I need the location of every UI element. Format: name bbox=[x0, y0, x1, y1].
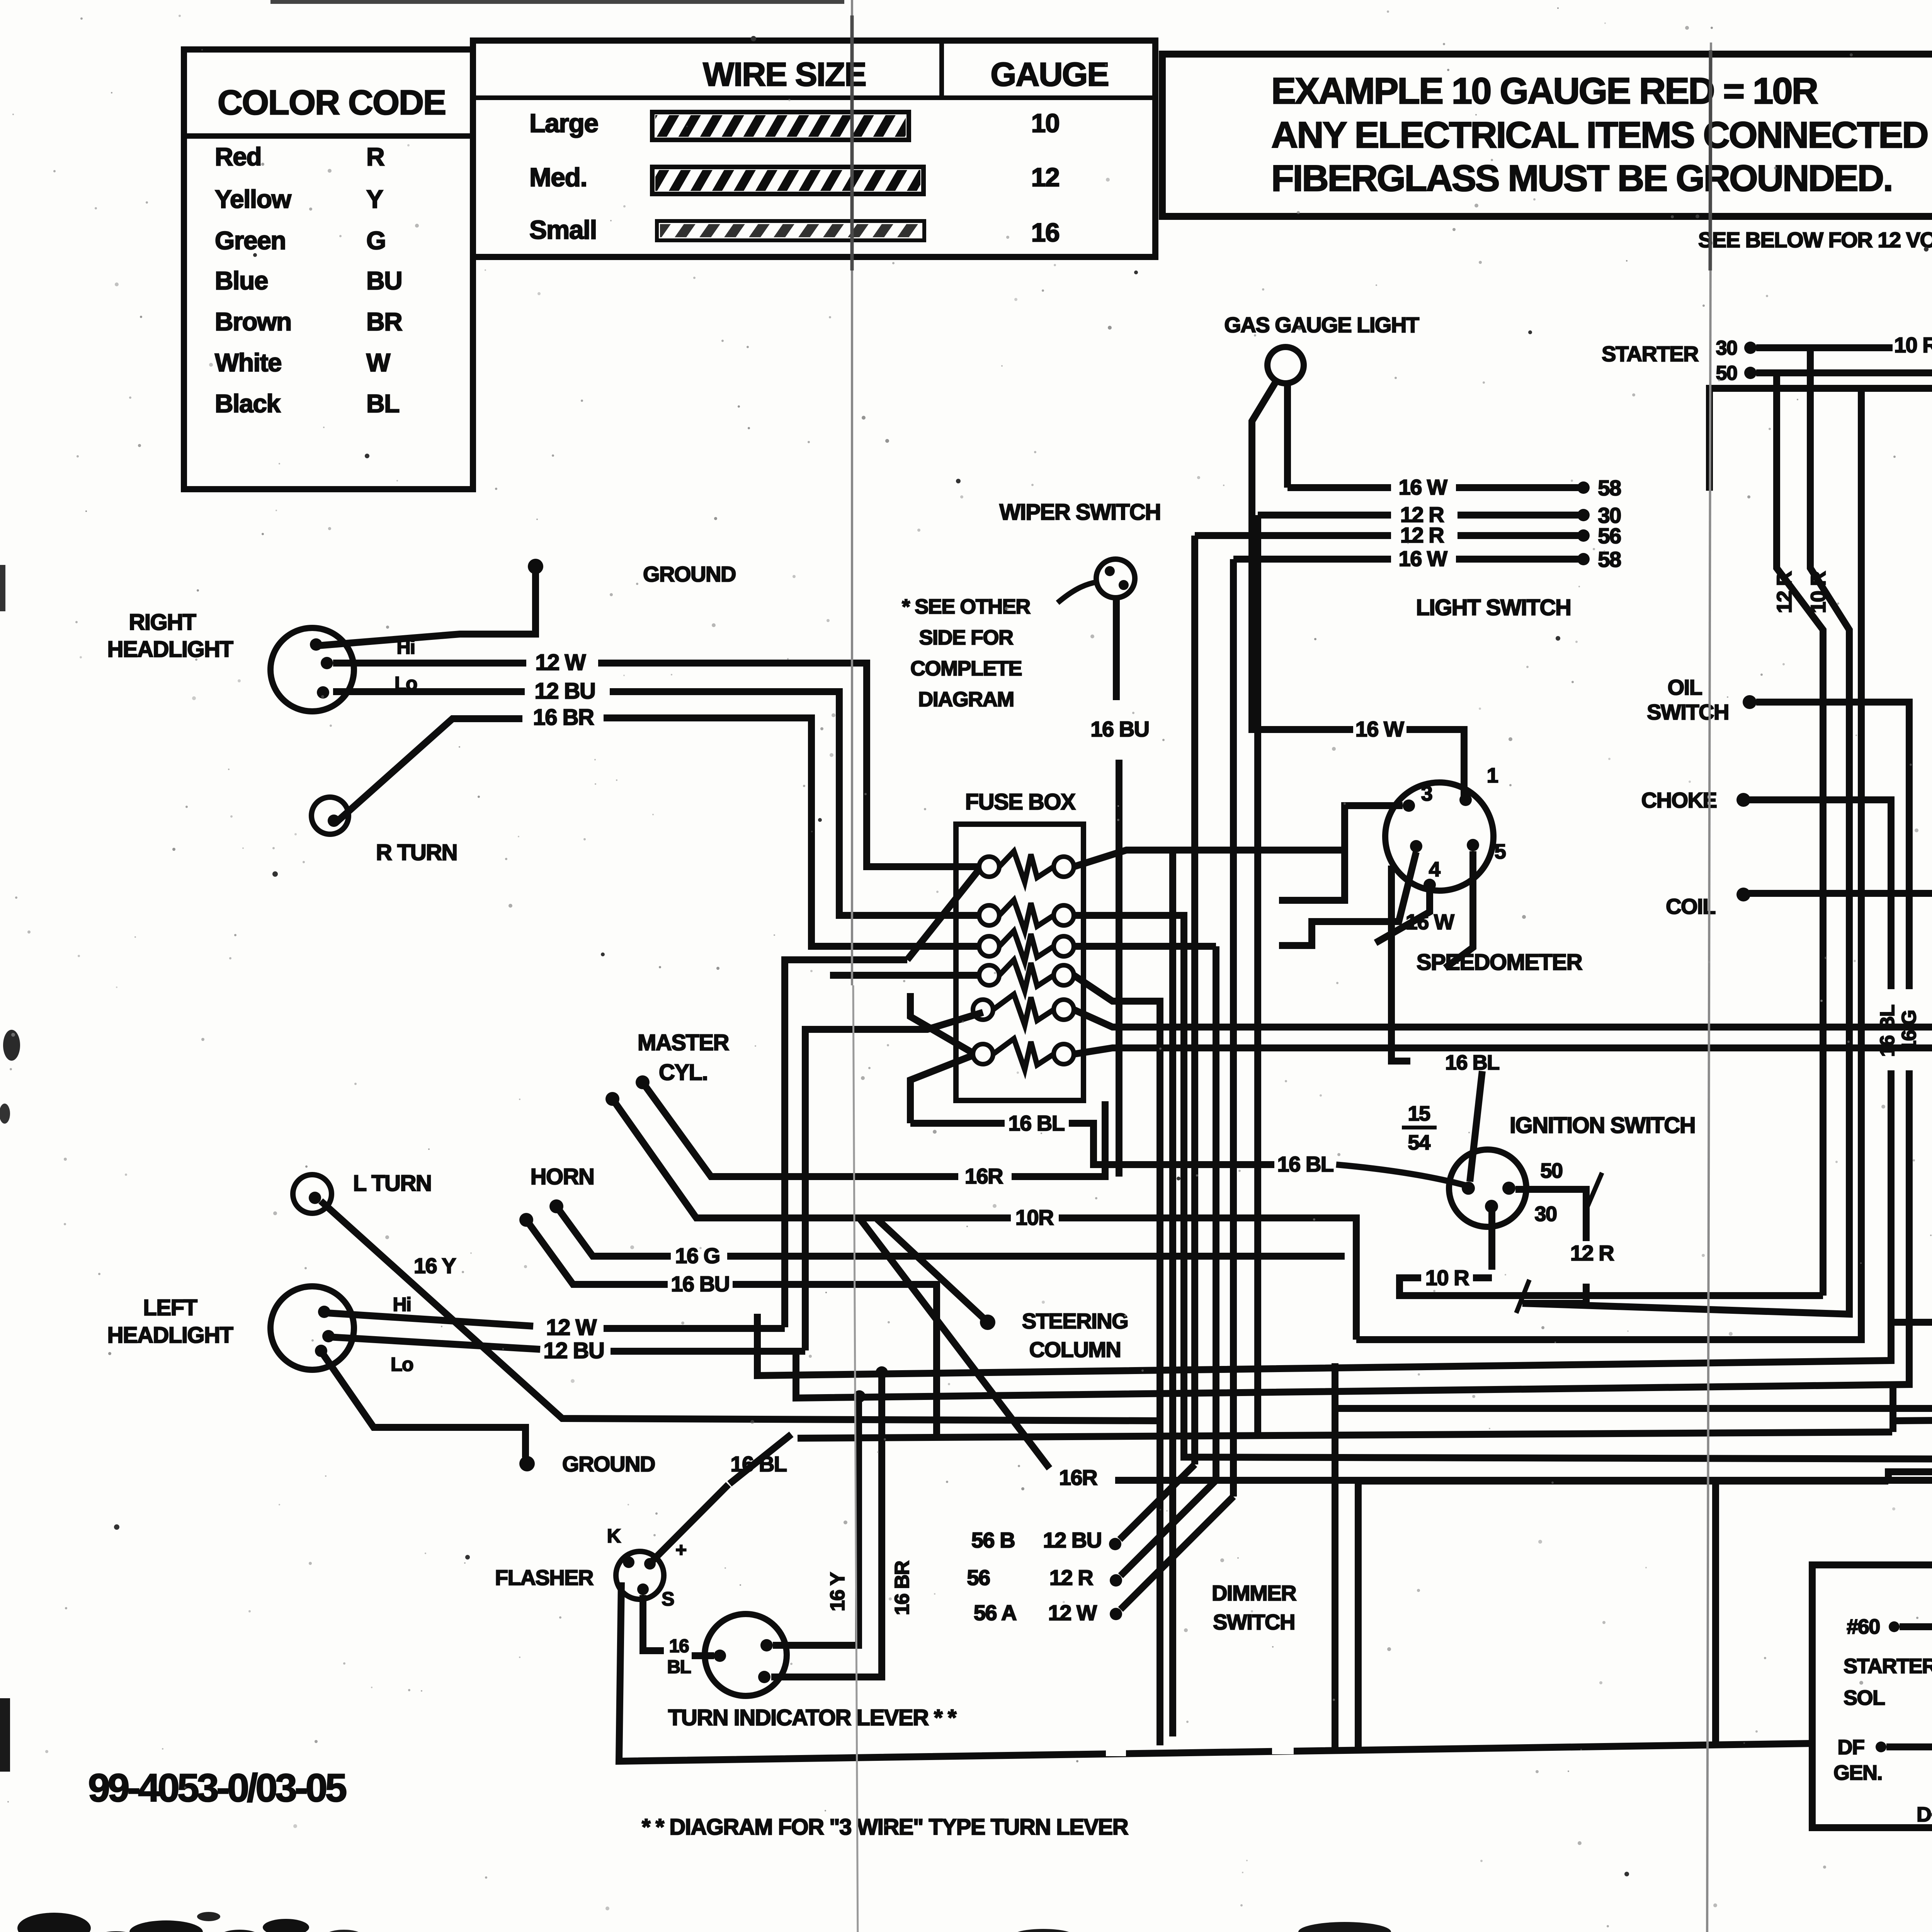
fuse F5 bbox=[973, 994, 1074, 1025]
wire dimmer row3 bbox=[1121, 1497, 1233, 1609]
gauge column divider bbox=[939, 41, 944, 98]
fuse F4 bbox=[979, 960, 1074, 991]
light switch row1 16W bbox=[1287, 475, 1621, 500]
svg-text:16R: 16R bbox=[965, 1164, 1003, 1188]
svg-text:16 BR: 16 BR bbox=[533, 705, 594, 730]
wire row2 drop bbox=[1254, 515, 1261, 1434]
r turn pin dot bbox=[328, 815, 340, 827]
svg-text:OIL: OIL bbox=[1668, 675, 1702, 699]
svg-text:SPEEDOMETER: SPEEDOMETER bbox=[1417, 950, 1582, 975]
svg-text:SWITCH: SWITCH bbox=[1213, 1610, 1295, 1634]
svg-text:58: 58 bbox=[1598, 547, 1621, 571]
wire fuse row2 exit bbox=[1074, 915, 1932, 1459]
wire 16BL curve to ignition bbox=[1336, 1165, 1466, 1185]
horn dot2 bbox=[519, 1213, 533, 1227]
svg-text:Lo: Lo bbox=[391, 1354, 413, 1375]
example note box bbox=[1162, 54, 1932, 216]
wire flasher loop left bbox=[619, 1582, 1812, 1761]
slash mark 1 bbox=[1587, 1173, 1602, 1209]
svg-text:10R: 10R bbox=[1015, 1205, 1054, 1230]
light switch row2 12R bbox=[1258, 502, 1621, 527]
color code row Yellow bbox=[215, 185, 383, 213]
svg-text:GAS GAUGE LIGHT: GAS GAUGE LIGHT bbox=[1224, 313, 1419, 337]
svg-text:WIPER SWITCH: WIPER SWITCH bbox=[1000, 500, 1161, 525]
choke dot bbox=[1736, 793, 1750, 807]
svg-text:Med.: Med. bbox=[529, 163, 587, 192]
svg-text:WIRE SIZE: WIRE SIZE bbox=[703, 56, 866, 93]
color code row Red bbox=[215, 142, 384, 171]
svg-text:W: W bbox=[366, 348, 391, 377]
svg-text:DF: DF bbox=[1838, 1736, 1864, 1759]
mid left blob bbox=[0, 565, 20, 1124]
svg-text:30: 30 bbox=[1716, 337, 1737, 359]
see other side note bbox=[902, 595, 1030, 711]
svg-text:Hi: Hi bbox=[393, 1294, 411, 1315]
svg-text:IGNITION SWITCH: IGNITION SWITCH bbox=[1510, 1113, 1695, 1138]
wire 16BU riser bbox=[1356, 388, 1861, 1340]
wire dimmer enclosure bbox=[1358, 1481, 1888, 1752]
svg-text:D+: D+ bbox=[1917, 1803, 1932, 1826]
wire 16BU to 61 bbox=[1709, 375, 1932, 491]
svg-text:10 R: 10 R bbox=[1894, 333, 1932, 357]
dimmer switch label bbox=[1212, 1581, 1296, 1634]
slash mark 2 bbox=[1516, 1280, 1529, 1313]
left headlight label bbox=[107, 1295, 233, 1348]
svg-text:Large: Large bbox=[529, 109, 598, 138]
DF dot bbox=[1876, 1742, 1886, 1752]
dimmer row2 labels bbox=[967, 1565, 1093, 1590]
svg-text:30: 30 bbox=[1534, 1202, 1556, 1226]
wire turn 16Y bbox=[773, 1396, 859, 1645]
wire 16R bottom diagonal bbox=[859, 1218, 1049, 1468]
master cyl dot2 bbox=[605, 1092, 619, 1106]
dimmer row3 dot bbox=[1110, 1608, 1122, 1620]
color code table frame bbox=[184, 49, 473, 489]
wire fuse row1 feed diagonal bbox=[907, 869, 979, 960]
wire 16BL tick ignition bbox=[1391, 866, 1410, 1061]
dimmer row2 dot bbox=[1110, 1574, 1122, 1587]
svg-text:12 W: 12 W bbox=[546, 1315, 597, 1340]
wire flasher loop horizontal bbox=[798, 1432, 1892, 1438]
svg-text:RIGHT: RIGHT bbox=[129, 610, 196, 635]
svg-text:50: 50 bbox=[1540, 1159, 1562, 1182]
svg-text:12 R: 12 R bbox=[1570, 1241, 1614, 1265]
wire fuse row3 exit bbox=[1074, 943, 1216, 950]
wire row3 drop bbox=[1191, 536, 1198, 1464]
svg-text:12 BU: 12 BU bbox=[1043, 1528, 1101, 1552]
svg-text:16 BU: 16 BU bbox=[1090, 717, 1149, 741]
svg-text:15: 15 bbox=[1408, 1102, 1430, 1125]
svg-text:ANY ELECTRICAL ITEMS CONNECTED: ANY ELECTRICAL ITEMS CONNECTED TO bbox=[1271, 114, 1932, 156]
svg-text:STEERING: STEERING bbox=[1022, 1309, 1128, 1333]
wire 16Y right segment bbox=[1892, 1418, 1932, 1421]
color code row White bbox=[215, 348, 391, 377]
wire row4 drop bbox=[1230, 559, 1237, 1497]
wiper pin dot1 bbox=[1105, 566, 1115, 576]
svg-text:SEE BELOW FOR 12 VOLT SYSTEM: SEE BELOW FOR 12 VOLT SYSTEM bbox=[1698, 228, 1932, 252]
svg-text:16 BL: 16 BL bbox=[1277, 1152, 1333, 1176]
wire 12W right headlight bbox=[333, 650, 978, 867]
svg-text:3: 3 bbox=[1421, 782, 1432, 805]
coil dot bbox=[1736, 888, 1750, 901]
left headlight pin hi dot bbox=[318, 1306, 330, 1318]
svg-text:16 W: 16 W bbox=[1399, 546, 1447, 571]
turn pin br dot bbox=[758, 1671, 770, 1683]
wire riser 4899 bbox=[1889, 1384, 1896, 1432]
svg-text:99-4053-0/03-05: 99-4053-0/03-05 bbox=[88, 1766, 346, 1810]
color code header divider bbox=[184, 133, 473, 139]
svg-text:16 G: 16 G bbox=[675, 1243, 719, 1268]
speedo pin4b dot bbox=[1423, 879, 1436, 891]
fuse F3 bbox=[979, 931, 1074, 962]
svg-text:K: K bbox=[607, 1525, 621, 1547]
wire dimmer row1 bbox=[1120, 1464, 1195, 1539]
wire size header divider bbox=[473, 95, 1155, 100]
svg-text:R TURN: R TURN bbox=[376, 840, 457, 865]
svg-text:MASTER: MASTER bbox=[638, 1030, 729, 1055]
svg-text:16 BL: 16 BL bbox=[1445, 1051, 1499, 1074]
wire size table frame bbox=[473, 41, 1155, 257]
left headlight pin lo dot bbox=[315, 1345, 327, 1357]
wiper lead curl bbox=[1058, 582, 1097, 603]
master cyl dot1 bbox=[636, 1075, 650, 1089]
color code row Blue bbox=[215, 266, 402, 295]
right headlight pin mid dot bbox=[321, 657, 333, 669]
light switch row4 16W bbox=[1233, 546, 1621, 571]
svg-text:Blue: Blue bbox=[215, 266, 268, 295]
svg-text:10 R: 10 R bbox=[1807, 571, 1830, 613]
wire 16R bottom right bbox=[1115, 1459, 1932, 1480]
svg-text:12 W: 12 W bbox=[535, 650, 586, 675]
speedo pin5 dot bbox=[1467, 839, 1479, 851]
wire fuse row4 feed bbox=[830, 972, 978, 979]
wire speedo pin3 bbox=[1279, 806, 1403, 900]
svg-text:BU: BU bbox=[366, 266, 402, 295]
wire 16R right stop riser bbox=[1888, 661, 1932, 1483]
wire 16G lower bbox=[796, 1070, 1909, 1398]
ground node bottom dot bbox=[519, 1456, 535, 1471]
svg-text:4: 4 bbox=[1429, 858, 1440, 881]
svg-text:FUSE BOX: FUSE BOX bbox=[965, 789, 1076, 815]
svg-text:EXAMPLE 10 GAUGE RED = 10R: EXAMPLE 10 GAUGE RED = 10R bbox=[1271, 70, 1818, 112]
wire bar small 16 gauge bbox=[657, 221, 924, 240]
svg-text:BL: BL bbox=[366, 389, 399, 418]
wire gas gauge right lead bbox=[1284, 383, 1291, 488]
svg-text:COLOR CODE: COLOR CODE bbox=[218, 83, 446, 122]
steering column wire bbox=[877, 1219, 985, 1319]
svg-text:SOL: SOL bbox=[1844, 1686, 1885, 1709]
svg-text:L TURN: L TURN bbox=[353, 1171, 432, 1196]
wire 16Y long bbox=[321, 1201, 1160, 1421]
starter term 50 bbox=[1716, 362, 1757, 384]
wire speedo connect bbox=[1473, 1274, 1492, 1281]
oil dot bbox=[1743, 695, 1757, 709]
svg-text:TURN INDICATOR LEVER * *: TURN INDICATOR LEVER * * bbox=[668, 1705, 957, 1730]
svg-text:HORN: HORN bbox=[531, 1164, 594, 1189]
wire dimmer row2 bbox=[1121, 946, 1216, 1576]
master cyl label bbox=[638, 1030, 729, 1085]
oil switch label bbox=[1647, 675, 1729, 724]
ignition pin right dot bbox=[1502, 1182, 1515, 1195]
wire fuse row5 exit long bbox=[1074, 1010, 1932, 1027]
svg-text:S: S bbox=[662, 1588, 674, 1610]
svg-text:STARTER: STARTER bbox=[1844, 1655, 1932, 1678]
svg-text:10: 10 bbox=[1031, 109, 1060, 138]
svg-text:56: 56 bbox=[1598, 524, 1621, 548]
wire bar med 12 gauge bbox=[652, 167, 923, 194]
svg-text:16 W: 16 W bbox=[1406, 910, 1454, 934]
svg-text:56: 56 bbox=[967, 1565, 990, 1590]
svg-text:GROUND: GROUND bbox=[643, 562, 736, 586]
svg-text:16 W: 16 W bbox=[1355, 717, 1404, 741]
left headlight connector bbox=[270, 1286, 354, 1370]
wire fuse row4 exit bbox=[1074, 975, 1160, 1745]
svg-text:12 W: 12 W bbox=[1048, 1600, 1097, 1625]
wire ign 50 bbox=[1515, 1189, 1586, 1303]
svg-text:GAUGE: GAUGE bbox=[990, 56, 1108, 93]
wire 16BL lower bbox=[757, 1070, 1891, 1752]
bottom center blob cluster bbox=[1012, 1922, 1434, 1932]
wire speedo pin4 bbox=[1279, 852, 1416, 946]
svg-text:White: White bbox=[215, 348, 281, 377]
speedo pin4 dot bbox=[1410, 840, 1422, 852]
fuse F2 bbox=[979, 900, 1074, 931]
svg-text:HEADLIGHT: HEADLIGHT bbox=[107, 1323, 233, 1348]
fuse box frame bbox=[956, 824, 1083, 1100]
fuse F6 bbox=[973, 1039, 1074, 1070]
ignition pin bottom dot bbox=[1485, 1200, 1498, 1213]
svg-text:16 BR: 16 BR bbox=[891, 1561, 913, 1615]
wire 10R starter bbox=[1756, 333, 1932, 359]
wire choke 16BL bbox=[1749, 800, 1891, 989]
wire horn 16G bbox=[556, 1206, 1345, 1268]
svg-text:16R: 16R bbox=[1059, 1465, 1097, 1490]
svg-text:5: 5 bbox=[1495, 840, 1506, 863]
light switch row3 12R bbox=[1195, 523, 1621, 548]
svg-text:1: 1 bbox=[1487, 764, 1498, 787]
svg-text:BL: BL bbox=[667, 1657, 691, 1677]
fold crease right bbox=[1707, 43, 1711, 1932]
l turn connector bbox=[293, 1175, 332, 1213]
wire 12R down bbox=[1777, 373, 1823, 1296]
dimmer row1 labels bbox=[971, 1528, 1102, 1552]
wire turn left pin bbox=[692, 1652, 714, 1659]
junction dot 16Y oil bbox=[853, 1390, 866, 1403]
wire loop from row1 area bbox=[1169, 850, 1176, 1736]
svg-text:12 R: 12 R bbox=[1400, 523, 1444, 547]
svg-text:12 R: 12 R bbox=[1049, 1565, 1093, 1590]
ignition switch connector bbox=[1449, 1150, 1526, 1227]
wire bar large 10 gauge bbox=[652, 112, 909, 140]
svg-text:HEADLIGHT: HEADLIGHT bbox=[107, 637, 233, 662]
svg-text:16 W: 16 W bbox=[1399, 475, 1447, 499]
right headlight pin hi dot bbox=[310, 638, 322, 651]
color code row Black bbox=[215, 389, 399, 418]
svg-text:FLASHER: FLASHER bbox=[495, 1565, 594, 1590]
flasher pin k dot bbox=[623, 1556, 634, 1568]
wire wiper 16BU upper bbox=[1113, 598, 1120, 700]
wire fuse row6 exit long bbox=[1074, 1048, 1932, 1054]
right headlight label bbox=[107, 610, 233, 662]
wire master 10R bbox=[612, 1099, 1356, 1340]
wire 16BL slant to pin bbox=[1470, 1071, 1482, 1182]
wire 16BL fuse bottom bbox=[910, 1111, 1274, 1165]
flasher pin s dot bbox=[637, 1583, 649, 1595]
wire flasher to 16BL bbox=[653, 1485, 728, 1560]
svg-text:12 R: 12 R bbox=[1773, 571, 1796, 613]
flasher pin plus dot bbox=[644, 1558, 656, 1570]
wire 16BR right run riser bbox=[1335, 563, 1932, 1408]
r turn connector bbox=[311, 797, 349, 834]
wire 50 to 51 bbox=[1756, 360, 1932, 373]
wiper switch connector bbox=[1096, 559, 1135, 598]
left headlight pin mid dot bbox=[322, 1330, 335, 1342]
wire horn 16BU bbox=[526, 1220, 937, 1438]
wire 12W to fuse feed bbox=[785, 960, 907, 1327]
svg-text:Y: Y bbox=[366, 185, 383, 213]
wire 12BU left headlight bbox=[329, 1337, 805, 1363]
svg-text:16 Y: 16 Y bbox=[414, 1253, 456, 1278]
svg-text:GROUND: GROUND bbox=[562, 1452, 655, 1476]
bottom left blob cluster bbox=[17, 1912, 362, 1932]
svg-text:R: R bbox=[366, 142, 384, 171]
turn pin left dot bbox=[714, 1650, 726, 1662]
svg-text:G: G bbox=[366, 226, 386, 255]
dimmer row3 labels bbox=[974, 1600, 1097, 1625]
color code row Green bbox=[215, 226, 386, 255]
svg-text:56 A: 56 A bbox=[974, 1600, 1016, 1625]
wire fuse row6 merge lower bbox=[910, 1056, 972, 1123]
svg-text:54: 54 bbox=[1408, 1131, 1430, 1154]
wire wiper 16BU lower bbox=[1116, 760, 1122, 1177]
svg-text:CHOKE: CHOKE bbox=[1641, 788, 1717, 812]
svg-text:DIMMER: DIMMER bbox=[1212, 1581, 1296, 1605]
bottom line gaps bbox=[1106, 1735, 1294, 1756]
wire 12W left headlight bbox=[328, 1313, 785, 1340]
wire 12R slope to riser bbox=[1522, 630, 1849, 1314]
svg-text:16 BL: 16 BL bbox=[1876, 1005, 1899, 1057]
fold crease left lower bbox=[853, 985, 858, 1932]
svg-text:LIGHT SWITCH: LIGHT SWITCH bbox=[1416, 595, 1571, 620]
svg-text:16 BU: 16 BU bbox=[671, 1272, 729, 1296]
svg-text:BR: BR bbox=[366, 307, 402, 336]
svg-text:12: 12 bbox=[1031, 163, 1060, 192]
wire left headlight ground bbox=[322, 1352, 526, 1458]
label 15 over 54 bbox=[1402, 1102, 1437, 1154]
ground node top dot bbox=[528, 559, 543, 574]
wire flasher S drop bbox=[643, 1595, 691, 1677]
color code row Brown bbox=[215, 307, 402, 336]
svg-text:SIDE FOR: SIDE FOR bbox=[919, 626, 1013, 649]
svg-text:COMPLETE: COMPLETE bbox=[910, 657, 1022, 680]
svg-text:COLUMN: COLUMN bbox=[1029, 1337, 1121, 1362]
svg-text:* * DIAGRAM FOR "3 WIRE" TYPE: * * DIAGRAM FOR "3 WIRE" TYPE TURN LEVER bbox=[642, 1815, 1128, 1840]
svg-text:10 R: 10 R bbox=[1425, 1265, 1469, 1290]
speedo pin3 dot bbox=[1403, 799, 1415, 812]
wire speedo pin1 feed bbox=[1406, 730, 1464, 796]
svg-text:58: 58 bbox=[1598, 476, 1621, 500]
svg-text:16 BL: 16 BL bbox=[1009, 1111, 1065, 1135]
svg-text:Hi: Hi bbox=[397, 636, 415, 658]
wire 12BU to fuse row5 feed bbox=[805, 1012, 983, 1350]
svg-text:Brown: Brown bbox=[215, 307, 291, 336]
wiper pin dot2 bbox=[1119, 580, 1129, 590]
wire oil 16G bbox=[1756, 702, 1909, 989]
wire fuse row1 exit bbox=[1074, 850, 1345, 867]
svg-text:STARTER: STARTER bbox=[1602, 342, 1699, 366]
svg-text:Black: Black bbox=[215, 389, 281, 418]
wire turn 16BR bbox=[771, 1372, 882, 1677]
svg-text:12 BU: 12 BU bbox=[544, 1338, 604, 1363]
wire ground drop bbox=[318, 571, 536, 646]
svg-text:16: 16 bbox=[669, 1636, 689, 1656]
wire 12BU right headlight bbox=[333, 679, 978, 915]
svg-text:56 B: 56 B bbox=[971, 1528, 1015, 1552]
wire fuse row6 merge upper bbox=[910, 993, 972, 1053]
svg-text:GEN.: GEN. bbox=[1833, 1761, 1882, 1784]
horn dot1 bbox=[549, 1199, 563, 1213]
svg-text:+: + bbox=[675, 1539, 686, 1561]
wire R10 left bbox=[1900, 1614, 1932, 1686]
svg-text:16 G: 16 G bbox=[1898, 1010, 1920, 1052]
dimmer row1 dot bbox=[1109, 1538, 1121, 1550]
left edge blob bbox=[0, 1698, 10, 1772]
wire 16BR right headlight bbox=[335, 705, 978, 946]
fold crease left bbox=[851, 0, 853, 985]
fuse F1 bbox=[979, 851, 1074, 882]
svg-text:16 Y: 16 Y bbox=[827, 1572, 849, 1611]
svg-text:FIBERGLASS MUST BE GROUNDED.: FIBERGLASS MUST BE GROUNDED. bbox=[1271, 158, 1892, 199]
right headlight connector bbox=[270, 628, 354, 711]
svg-text:Green: Green bbox=[215, 226, 286, 255]
wire license 16W bbox=[1749, 881, 1932, 905]
wire 10R tick bbox=[1400, 1278, 1823, 1296]
steering column dot bbox=[980, 1315, 995, 1330]
junction dot 16BR choke bbox=[876, 1366, 888, 1379]
flasher connector bbox=[616, 1551, 664, 1599]
top edge line bbox=[270, 0, 844, 4]
starter term 30 bbox=[1716, 337, 1757, 359]
turn pin tr dot bbox=[760, 1639, 773, 1651]
speedo pin1 dot bbox=[1459, 794, 1472, 806]
svg-text:SWITCH: SWITCH bbox=[1647, 700, 1729, 724]
speedometer connector bbox=[1385, 782, 1493, 891]
label starter sol bbox=[1844, 1655, 1932, 1709]
svg-text:* SEE OTHER: * SEE OTHER bbox=[902, 595, 1030, 618]
right headlight pin lo dot bbox=[317, 686, 329, 699]
svg-text:LEFT: LEFT bbox=[143, 1295, 197, 1320]
l turn pin dot bbox=[309, 1192, 321, 1204]
wire W16 bbox=[1886, 1734, 1932, 1759]
svg-text:Red: Red bbox=[215, 142, 261, 171]
wire 12R from ignition bbox=[1522, 1300, 1586, 1307]
wire left stop 16R bbox=[1888, 1310, 1932, 1335]
svg-text:COIL: COIL bbox=[1666, 894, 1715, 918]
wire speedo pin4b bbox=[1376, 891, 1430, 943]
svg-text:12 BU: 12 BU bbox=[535, 679, 595, 704]
svg-text:#60: #60 bbox=[1847, 1615, 1880, 1638]
ignition pin left dot bbox=[1462, 1182, 1475, 1195]
hash60 dot bbox=[1889, 1621, 1900, 1632]
wire 16BL to flasher bbox=[730, 1434, 791, 1484]
steering column label bbox=[1022, 1309, 1128, 1362]
wire ign 30 to 10R bbox=[1488, 1206, 1495, 1270]
svg-text:Small: Small bbox=[529, 215, 597, 245]
wire 10R down bbox=[1810, 348, 1849, 1314]
wire master 16R bbox=[643, 1082, 1105, 1188]
svg-text:16: 16 bbox=[1031, 218, 1060, 247]
generator box frame bbox=[1812, 1565, 1932, 1828]
